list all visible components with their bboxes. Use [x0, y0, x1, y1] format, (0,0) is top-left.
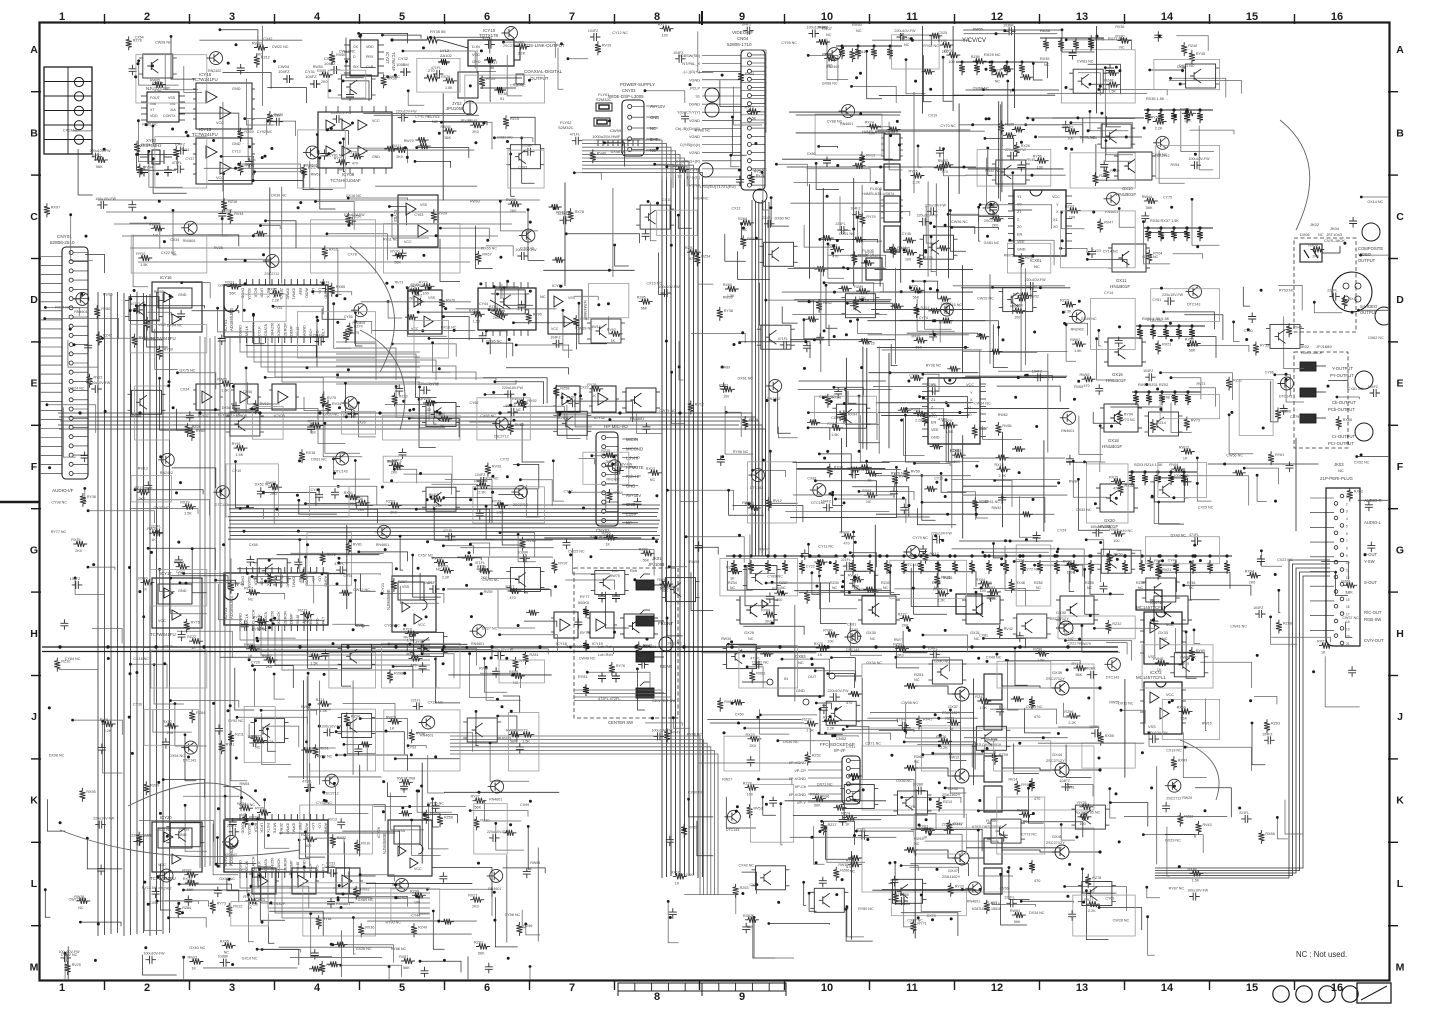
svg-text:RZ96: RZ96 [523, 924, 532, 928]
svg-text:RX10: RX10 [403, 628, 412, 632]
delay FLX03 H4MSLA35-US674 [884, 196, 900, 222]
svg-text:2SC2712: 2SC2712 [264, 272, 279, 276]
svg-text:DTC143: DTC143 [1187, 303, 1200, 307]
svg-text:16: 16 [1346, 605, 1350, 609]
wire toslink [392, 39, 424, 41]
svg-text:471FL: 471FL [938, 417, 948, 421]
svg-text:2.2K: 2.2K [937, 599, 945, 603]
wiring cluster r1c5 [510, 117, 535, 145]
IC ICY24 gate [336, 868, 360, 894]
svg-text:RX21: RX21 [1317, 640, 1326, 644]
wiring cluster r3c4 [444, 317, 470, 341]
wiring cluster r8c13 [1149, 733, 1188, 746]
wire group r5c10 [882, 461, 980, 463]
svg-text:DX06: DX06 [1300, 233, 1310, 237]
svg-text:100: 100 [905, 258, 911, 262]
svg-text:56K: 56K [954, 460, 961, 464]
svg-text:H: H [1396, 628, 1404, 640]
svg-text:NC: NC [866, 500, 872, 504]
svg-text:RX32: RX32 [268, 288, 277, 292]
svg-text:CW34 NC: CW34 NC [974, 402, 991, 406]
wiring cluster r2c7 [650, 202, 656, 240]
wiring cluster r10c9 [847, 907, 864, 937]
svg-text:CY88 NC: CY88 NC [827, 120, 843, 124]
svg-text:471FL: 471FL [475, 561, 485, 565]
svg-text:RY86 NC: RY86 NC [695, 129, 711, 133]
wiring cluster r11c5 [468, 956, 506, 999]
svg-text:CY72: CY72 [500, 457, 509, 461]
svg-text:100: 100 [414, 900, 420, 904]
wiring cluster r1c12 [1103, 123, 1115, 138]
wiring cluster r11c0 [68, 946, 95, 994]
svg-text:RX48: RX48 [1188, 867, 1197, 871]
svg-text:E: E [30, 378, 37, 390]
svg-text:VCC: VCC [472, 53, 480, 57]
svg-text:S1: S1 [695, 95, 700, 99]
svg-text:RZ66: RZ66 [840, 869, 849, 873]
svg-text:MICIN: MICIN [626, 437, 638, 442]
svg-text:GX44: GX44 [1052, 752, 1063, 757]
wiring cluster r7c13 [1194, 630, 1200, 644]
svg-text:220u10V-FW: 220u10V-FW [396, 110, 418, 114]
svg-text:RW67: RW67 [311, 173, 321, 177]
svg-text:VCC: VCC [1166, 693, 1174, 697]
svg-text:CY14 NC: CY14 NC [1103, 250, 1119, 254]
transistor QY11 RN4601 [626, 388, 656, 412]
svg-text:RY88 NC: RY88 NC [391, 947, 407, 951]
svg-text:LRCK: LRCK [260, 823, 264, 833]
wiring cluster r0c4 [382, 35, 421, 38]
svg-text:CY68 NC: CY68 NC [384, 623, 400, 627]
svg-text:CY75: CY75 [1163, 196, 1172, 200]
svg-text:GX30 NC: GX30 NC [154, 506, 170, 510]
transistor GX30 2SC2712Y [1059, 621, 1073, 635]
svg-text:CX82: CX82 [807, 476, 816, 480]
svg-text:1K: 1K [949, 728, 954, 732]
svg-text:RX35 1.5K ...: RX35 1.5K ... [1146, 97, 1169, 101]
svg-text:RV51: RV51 [180, 148, 189, 152]
svg-text:GX40: GX40 [948, 786, 959, 791]
svg-text:100u10V-FW: 100u10V-FW [1189, 157, 1211, 161]
svg-text:ZA102: ZA102 [440, 53, 453, 58]
svg-text:RZ14: RZ14 [316, 698, 325, 702]
transistor GX20 HN1B01F [1100, 484, 1134, 512]
svg-text:384/256: 384/256 [271, 323, 275, 336]
svg-text:2K0: 2K0 [139, 497, 146, 501]
svg-text:RY25: RY25 [486, 77, 495, 81]
svg-text:CY48 NC: CY48 NC [1161, 396, 1177, 400]
svg-text:CY81 NC: CY81 NC [984, 500, 1000, 504]
wiring cluster r5c13 [1159, 502, 1184, 524]
svg-text:21: 21 [1346, 642, 1350, 646]
svg-text:DGND: DGND [239, 325, 243, 336]
svg-text:NC: NC [540, 294, 546, 299]
svg-text:K: K [1396, 795, 1404, 807]
svg-text:RX35: RX35 [220, 940, 229, 944]
transistor GX11 HN1B01F [1112, 244, 1146, 272]
svg-text:2SC2712Y: 2SC2712Y [1046, 840, 1065, 845]
svg-text:RY26 NC: RY26 NC [891, 472, 907, 476]
svg-text:7: 7 [1346, 539, 1348, 543]
svg-text:104FZ: 104FZ [550, 336, 561, 340]
svg-text:8: 8 [654, 991, 660, 1003]
wiring cluster r2c1 [133, 235, 148, 287]
svg-text:JST1043: JST1043 [1326, 232, 1343, 237]
svg-text:RX11: RX11 [747, 237, 756, 241]
svg-text:1K: 1K [390, 727, 395, 731]
dac2 bottom pin wires [240, 625, 430, 640]
svg-text:CY22: CY22 [806, 565, 815, 569]
wiring cluster r4c7 [637, 414, 663, 434]
wire group r3c9 [792, 314, 887, 316]
svg-text:RX88: RX88 [1265, 832, 1274, 836]
svg-text:4: 4 [314, 11, 321, 23]
svg-text:220u10V-FW: 220u10V-FW [895, 29, 917, 33]
svg-text:RY35 56: RY35 56 [430, 29, 446, 34]
svg-text:AV+10V: AV+10V [626, 493, 641, 498]
svg-text:RX57: RX57 [399, 955, 408, 959]
svg-text:RW40: RW40 [441, 125, 451, 129]
svg-text:4: 4 [1346, 517, 1348, 521]
resistor ladder GX16 [1136, 325, 1205, 327]
svg-text:CX81: CX81 [979, 634, 988, 638]
wiring cluster r4c10 [923, 374, 939, 392]
wiring cluster r6c1 [170, 576, 228, 589]
central vertical bus [661, 176, 663, 878]
svg-text:CY58: CY58 [750, 883, 759, 887]
svg-text:CW29 NC: CW29 NC [977, 297, 994, 301]
svg-text:Y-OUTPUT: Y-OUTPUT [1332, 366, 1353, 371]
svg-text:RX55: RX55 [1105, 734, 1114, 738]
svg-text:RY36: RY36 [87, 495, 96, 499]
svg-text:CW93 NC: CW93 NC [483, 578, 500, 582]
rail dots row H [58, 645, 61, 648]
svg-text:470: 470 [352, 161, 358, 165]
svg-text:CX34: CX34 [170, 238, 179, 242]
svg-text:RW44: RW44 [1142, 195, 1152, 199]
svg-text:NC: NC [650, 478, 656, 482]
wiring cluster r11c1 [184, 957, 196, 981]
svg-text:RW21: RW21 [188, 956, 198, 960]
wiring cluster r8c12 [1066, 745, 1091, 778]
wiring cluster r6c11 [1035, 565, 1083, 577]
svg-text:1K: 1K [142, 587, 147, 591]
svg-text:RX27: RX27 [1084, 898, 1093, 902]
svg-text:11: 11 [906, 11, 918, 23]
svg-text:CX18 NC: CX18 NC [133, 657, 149, 661]
svg-text:CW41 NC: CW41 NC [1230, 625, 1247, 629]
wiring cluster r1c6 [574, 173, 601, 180]
svg-text:WIDE-DSP-L3005: WIDE-DSP-L3005 [608, 94, 644, 99]
svg-text:96/48: 96/48 [296, 327, 300, 336]
svg-text:XIA: XIA [170, 108, 176, 112]
svg-text:RSTX: RSTX [266, 823, 270, 833]
svg-text:AV+10V: AV+10V [650, 104, 665, 109]
svg-text:RX36: RX36 [365, 925, 374, 929]
svg-text:ICY20: ICY20 [160, 815, 172, 820]
svg-text:2.2K: 2.2K [478, 491, 486, 495]
svg-text:AUDIO-I/F: AUDIO-I/F [52, 488, 74, 493]
svg-text:CW56 NC: CW56 NC [1226, 454, 1243, 458]
svg-text:471FL: 471FL [443, 529, 453, 533]
svg-text:56K: 56K [1076, 673, 1083, 677]
wiring cluster r9c11 [978, 811, 1028, 824]
svg-text:CY39 NC: CY39 NC [252, 628, 268, 632]
wire group r9c3 [279, 832, 395, 834]
svg-text:GX30: GX30 [1056, 610, 1067, 615]
wiring cluster r10c11 [1009, 868, 1030, 900]
wiring cluster r7c7 [637, 669, 645, 710]
sweep arc 1 [350, 246, 395, 372]
svg-text:2K0: 2K0 [302, 619, 309, 623]
wiring cluster r0c11 [990, 62, 1048, 78]
wiring cluster r7c8 [743, 626, 804, 634]
svg-text:RZ52: RZ52 [812, 754, 821, 758]
wiring cluster r2c3 [348, 198, 407, 200]
svg-text:220u10V-FW: 220u10V-FW [90, 149, 112, 153]
svg-text:CX65 NC: CX65 NC [480, 414, 496, 418]
svg-text:1.5K: 1.5K [1074, 349, 1082, 353]
svg-text:CX50: CX50 [735, 712, 744, 716]
svg-text:RW55: RW55 [973, 27, 983, 31]
svg-text:VGND: VGND [689, 78, 700, 82]
svg-text:NC: NC [248, 597, 254, 601]
svg-text:DX52 NC: DX52 NC [255, 483, 271, 487]
svg-text:CX15 NC: CX15 NC [646, 281, 662, 285]
svg-text:J: J [31, 711, 37, 723]
svg-text:RX50: RX50 [336, 53, 345, 57]
svg-text:CX22: CX22 [580, 385, 589, 389]
svg-text:RZ84: RZ84 [182, 906, 191, 910]
svg-text:RV89: RV89 [196, 429, 205, 433]
wiring cluster r1c2 [248, 120, 256, 160]
wiring cluster r0c8 [734, 87, 763, 125]
right vertical bus [751, 200, 753, 556]
svg-text:RY38: RY38 [492, 499, 501, 503]
svg-text:RZ34: RZ34 [351, 715, 360, 719]
IC ICY09 TC74HCU04AF [318, 112, 392, 168]
svg-text:NC: NC [995, 80, 1001, 84]
wiring cluster r2c11 [1010, 240, 1054, 265]
svg-text:RV73: RV73 [1191, 419, 1200, 423]
horizontal bus row F [228, 504, 660, 506]
svg-text:CV/Y-OUT: CV/Y-OUT [1364, 638, 1384, 643]
svg-text:RY38: RY38 [724, 309, 733, 313]
wire group r5c14 [1208, 463, 1319, 465]
svg-text:221FL: 221FL [411, 698, 421, 702]
svg-text:2K0: 2K0 [266, 665, 273, 669]
svg-text:B: B [30, 127, 38, 139]
svg-text:RW39: RW39 [723, 295, 733, 299]
svg-text:CNY01: CNY01 [57, 234, 72, 239]
wire group r0c2 [262, 26, 264, 106]
svg-text:PCr-OUTPUT: PCr-OUTPUT [1328, 441, 1354, 446]
svg-text:220u10V-FW: 220u10V-FW [1162, 293, 1184, 297]
svg-text:RY38 NC: RY38 NC [926, 364, 942, 368]
svg-text:RY72 NC: RY72 NC [1024, 568, 1040, 572]
row G diode cells [956, 594, 982, 614]
svg-text:1.5K: 1.5K [1184, 118, 1192, 122]
svg-text:1K: 1K [677, 175, 682, 179]
svg-text:2K0: 2K0 [1249, 580, 1256, 584]
svg-text:FLX03: FLX03 [870, 186, 883, 191]
svg-text:56K: 56K [338, 167, 345, 171]
svg-text:NC: NC [781, 586, 787, 590]
svg-text:RY93: RY93 [944, 49, 953, 53]
svg-text:9: 9 [739, 991, 745, 1003]
svg-text:GX29: GX29 [744, 630, 754, 635]
svg-text:RZ56: RZ56 [602, 532, 611, 536]
svg-text:Y1: Y1 [1017, 195, 1022, 199]
svg-text:RV47: RV47 [1104, 221, 1113, 225]
svg-text:220u10V-FW: 220u10V-FW [917, 214, 939, 218]
wire group r11c2 [203, 967, 297, 969]
svg-text:100: 100 [948, 60, 954, 64]
wiring cluster r0c7 [698, 31, 713, 72]
svg-text:NC: NC [440, 424, 446, 428]
wiring cluster r9c10 [945, 788, 964, 818]
wiring cluster r2c13 [1173, 254, 1203, 259]
svg-text:DX81 NC: DX81 NC [311, 457, 327, 461]
svg-text:RV78: RV78 [264, 740, 273, 744]
svg-text:Cb-OUTPUT: Cb-OUTPUT [1332, 400, 1356, 405]
svg-text:XT: XT [150, 108, 155, 112]
svg-text:K: K [30, 795, 38, 807]
svg-text:RZ90: RZ90 [1033, 648, 1042, 652]
svg-text:RX94: RX94 [848, 412, 857, 416]
svg-text:DX30 NC: DX30 NC [783, 740, 799, 744]
svg-text:RW77: RW77 [894, 638, 904, 642]
svg-text:RZ63: RZ63 [740, 886, 749, 890]
svg-text:RGB-SW: RGB-SW [1364, 617, 1381, 622]
svg-text:DX81 NC: DX81 NC [1080, 136, 1096, 140]
svg-text:CX43 NC: CX43 NC [739, 864, 755, 868]
svg-text:103BK: 103BK [1089, 725, 1100, 729]
svg-text:NC: NC [870, 637, 876, 641]
svg-text:NC: NC [1189, 586, 1195, 590]
svg-text:BCLK: BCLK [253, 288, 257, 298]
svg-text:YCbCr-JACK: YCbCr-JACK [1300, 351, 1323, 355]
svg-text:RV71: RV71 [395, 280, 404, 284]
svg-text:1000u25V-HWF: 1000u25V-HWF [592, 134, 621, 139]
sweep arc 4 [60, 830, 300, 857]
svg-text:56K: 56K [401, 787, 408, 791]
svg-text:220u10V-FW: 220u10V-FW [487, 830, 509, 834]
svg-text:RW65: RW65 [150, 79, 160, 83]
svg-text:56K: 56K [403, 966, 410, 970]
svg-text:2K0: 2K0 [391, 470, 398, 474]
svg-text:LRCK: LRCK [260, 576, 264, 586]
svg-text:NC: NC [1036, 586, 1042, 590]
svg-text:221FL: 221FL [151, 525, 161, 529]
svg-text:NC: NC [1034, 264, 1040, 269]
svg-text:GX16: GX16 [1112, 372, 1123, 377]
svg-text:RX85: RX85 [901, 247, 910, 251]
svg-text:471FL: 471FL [172, 161, 182, 165]
svg-text:PRX: PRX [366, 55, 374, 59]
svg-text:20: 20 [1346, 635, 1350, 639]
svg-text:RV13: RV13 [328, 817, 337, 821]
svg-text:GX32: GX32 [1064, 630, 1074, 635]
svg-text:OUT: OUT [808, 674, 817, 679]
svg-text:220u10V-FW: 220u10V-FW [502, 386, 524, 390]
svg-text:PCb-OUTPUT: PCb-OUTPUT [1328, 407, 1355, 412]
svg-text:RY84: RY84 [614, 491, 623, 495]
svg-text:GND: GND [178, 293, 187, 297]
svg-text:104FZ: 104FZ [1059, 779, 1070, 783]
svg-text:CX22 NC: CX22 NC [161, 251, 177, 255]
wiring cluster r3c6 [563, 310, 573, 350]
svg-text:RW75: RW75 [610, 574, 620, 578]
wiring cluster r4c3 [323, 405, 362, 456]
svg-text:RX92: RX92 [527, 399, 536, 403]
svg-text:D: D [30, 294, 38, 306]
svg-text:471FL: 471FL [778, 337, 788, 341]
svg-text:6: 6 [1346, 532, 1348, 536]
svg-text:RW62: RW62 [1080, 373, 1090, 377]
svg-text:220u10V-FW: 220u10V-FW [1147, 731, 1169, 735]
svg-text:CY92 NC: CY92 NC [228, 719, 244, 723]
svg-text:56K: 56K [478, 952, 485, 956]
svg-text:CW24 NC: CW24 NC [68, 386, 85, 390]
wiring cluster r8c3 [360, 719, 407, 740]
svg-text:RW12: RW12 [949, 755, 959, 759]
svg-text:2K0: 2K0 [75, 549, 82, 553]
svg-text:EN: EN [931, 421, 937, 425]
svg-text:DX16 NC: DX16 NC [441, 326, 457, 330]
svg-text:RX88: RX88 [1343, 418, 1352, 422]
svg-text:RZ15: RZ15 [510, 117, 519, 121]
svg-text:Cr-OUTPUT: Cr-OUTPUT [1332, 434, 1355, 439]
wire group r2c6 [543, 269, 634, 271]
svg-text:CW34 NC: CW34 NC [1026, 705, 1043, 709]
svg-text:RN4601: RN4601 [489, 798, 502, 802]
top fold mark [701, 11, 703, 25]
svg-text:CY85 NC: CY85 NC [1085, 810, 1101, 814]
svg-text:RY99: RY99 [1063, 559, 1072, 563]
svg-text:221FL: 221FL [841, 558, 851, 562]
svg-text:RV12: RV12 [773, 499, 782, 503]
svg-text:RN2402: RN2402 [1071, 328, 1084, 332]
svg-text:104FZ: 104FZ [278, 69, 290, 74]
svg-text:C: C [30, 211, 38, 223]
svg-text:9: 9 [739, 11, 745, 23]
wiring cluster r1c7 [667, 167, 687, 187]
svg-text:RW42: RW42 [992, 506, 1002, 510]
svg-text:GND: GND [372, 155, 380, 159]
svg-text:221FL: 221FL [762, 216, 772, 220]
IC ICY02 NJM4580E [408, 290, 442, 334]
resistor ladder GX18 [1132, 391, 1201, 393]
wiring cluster r2c9 [864, 211, 910, 216]
svg-text:CX43: CX43 [164, 645, 173, 649]
svg-text:CY61 NC: CY61 NC [1147, 318, 1163, 322]
svg-text:AD1855JRS: AD1855JRS [229, 308, 234, 331]
svg-text:RW93: RW93 [689, 560, 699, 564]
IC ICY19 TC7S08F [590, 612, 614, 638]
svg-text:NC: NC [914, 678, 920, 682]
svg-text:CX12: CX12 [732, 206, 741, 210]
svg-text:GX18: GX18 [1108, 438, 1119, 443]
svg-text:JK03: JK03 [1334, 462, 1344, 467]
wiring cluster r3c5 [486, 331, 506, 358]
svg-text:RY80 NC: RY80 NC [858, 907, 874, 911]
svg-text:471FL: 471FL [856, 828, 866, 832]
svg-text:RZ79: RZ79 [749, 418, 758, 422]
svg-text:RY68: RY68 [761, 609, 770, 613]
svg-text:2K0: 2K0 [750, 744, 757, 748]
svg-text:CX53 NC: CX53 NC [1076, 508, 1092, 512]
